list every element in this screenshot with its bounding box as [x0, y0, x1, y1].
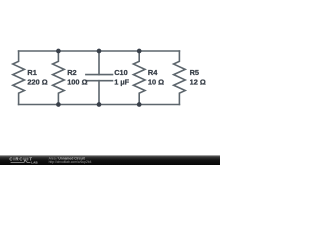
- svg-text:http://circuitlab.com/c/6up2b4: http://circuitlab.com/c/6up2b4: [49, 160, 92, 164]
- svg-text:R4: R4: [148, 68, 158, 77]
- watermark bar: [0, 155, 220, 165]
- svg-text:12 Ω: 12 Ω: [190, 77, 206, 86]
- svg-text:LAB: LAB: [31, 160, 38, 164]
- resistor R5: [174, 51, 186, 105]
- svg-text:C10: C10: [114, 68, 128, 77]
- watermark logo waveform: [11, 161, 31, 162]
- svg-text:R5: R5: [190, 68, 199, 77]
- svg-text:220 Ω: 220 Ω: [27, 77, 47, 86]
- node: top junction at R2: [56, 49, 61, 54]
- node: bottom junction at R4: [137, 102, 142, 107]
- svg-text:100 Ω: 100 Ω: [67, 77, 87, 86]
- capacitor C10: [86, 51, 113, 105]
- svg-text:R1: R1: [27, 68, 36, 77]
- resistor R4: [133, 51, 145, 105]
- node: top junction at C10: [97, 49, 102, 54]
- svg-text:R2: R2: [67, 68, 76, 77]
- svg-text:1 µF: 1 µF: [114, 77, 129, 86]
- node: top junction at R4: [137, 49, 142, 54]
- node: bottom junction at R2: [56, 102, 61, 107]
- wire: top rail: [19, 50, 180, 52]
- svg-text:10 Ω: 10 Ω: [148, 77, 164, 86]
- node: bottom junction at C10: [97, 102, 102, 107]
- resistor R2: [53, 51, 65, 105]
- wire: bottom rail: [19, 104, 180, 106]
- svg-text:CIRCUIT: CIRCUIT: [9, 157, 32, 162]
- resistor R1: [13, 51, 25, 105]
